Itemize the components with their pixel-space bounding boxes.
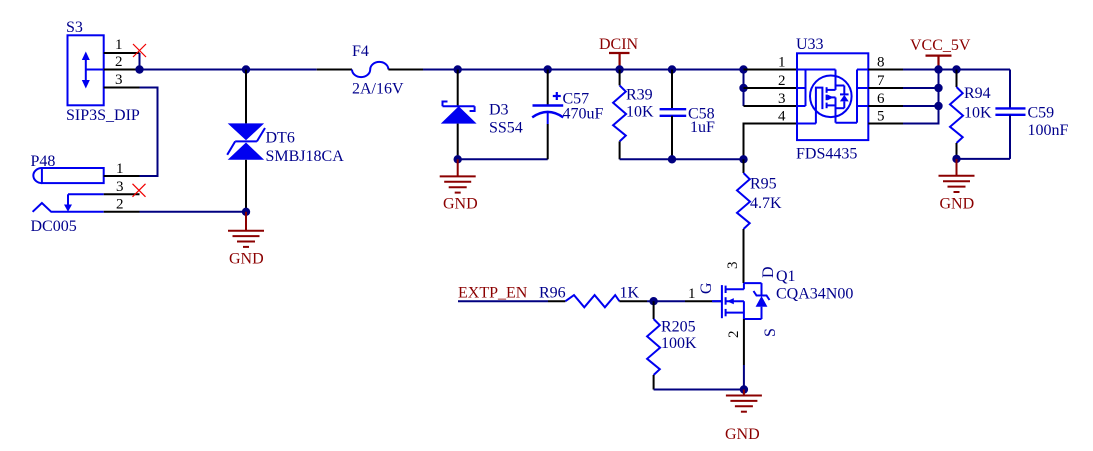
- wire fuse left lead: [317, 69, 352, 71]
- svg-text:FDS4435: FDS4435: [796, 146, 857, 163]
- wire R94 top lead: [956, 70, 958, 88]
- U33 pin 4: [744, 124, 798, 160]
- wire D3 bottom lead: [457, 124, 459, 160]
- svg-text:10K: 10K: [964, 105, 992, 122]
- wire C58 bottom lead: [671, 116, 673, 160]
- wire Q1 source to GND junction: [743, 365, 745, 390]
- svg-text:R205: R205: [661, 319, 696, 336]
- svg-text:GND: GND: [940, 196, 975, 213]
- wire main rail (S3 to fuse): [140, 69, 317, 71]
- wire S3 pin3 to P48 pin1: [140, 88, 158, 177]
- svg-text:1uF: 1uF: [690, 119, 715, 136]
- wire U33 left pin bus: [743, 70, 745, 107]
- wire DT6 top lead: [245, 70, 247, 124]
- svg-text:SIP3S_DIP: SIP3S_DIP: [66, 107, 140, 124]
- node junction R94 bottom: [952, 155, 960, 163]
- svg-text:3: 3: [115, 72, 123, 88]
- svg-text:1K: 1K: [620, 285, 640, 302]
- node junction C58 top: [668, 65, 676, 73]
- svg-text:2: 2: [115, 54, 123, 70]
- mosfet array U33: [797, 53, 868, 140]
- P48 pin 3: [104, 193, 140, 195]
- no-connect X on S3 pin 1: [133, 44, 146, 57]
- wire R39 bottom lead: [619, 141, 621, 159]
- svg-text:10K: 10K: [626, 104, 654, 121]
- wire D3 top lead: [457, 70, 459, 107]
- svg-text:R95: R95: [750, 176, 777, 193]
- node junction C57 top: [544, 65, 552, 73]
- svg-text:3: 3: [116, 179, 124, 195]
- Q1 gate pin: [685, 300, 721, 302]
- node junction S3 pin2: [135, 65, 143, 73]
- wire R96 right lead: [619, 300, 647, 302]
- svg-text:R94: R94: [964, 85, 991, 102]
- svg-text:1: 1: [116, 161, 124, 177]
- wire R205 top lead: [653, 301, 655, 319]
- wire C57 top lead: [547, 70, 549, 106]
- Q1 source pin: [743, 319, 745, 365]
- U33 pin 7: [868, 87, 903, 89]
- node junction gate / R205: [649, 297, 657, 305]
- U33 pin 1: [744, 69, 798, 71]
- svg-text:470uF: 470uF: [563, 106, 604, 123]
- svg-text:D3: D3: [489, 102, 509, 119]
- svg-text:6: 6: [877, 91, 885, 107]
- node junction pin7: [934, 84, 942, 92]
- svg-text:GND: GND: [229, 251, 264, 268]
- svg-text:DC005: DC005: [31, 218, 77, 235]
- svg-text:R96: R96: [539, 285, 566, 302]
- svg-text:GND: GND: [725, 426, 760, 443]
- wire R96 to gate junction: [647, 300, 685, 302]
- svg-text:2: 2: [726, 331, 742, 339]
- svg-text:P48: P48: [31, 153, 56, 170]
- wire fuse right lead: [388, 69, 423, 71]
- capacitor C57 polarized: [532, 91, 603, 125]
- TVS diode DT6: [227, 123, 344, 165]
- wire R205 bottom lead: [653, 375, 655, 390]
- fuse F4: [352, 43, 404, 98]
- svg-text:5: 5: [877, 109, 885, 125]
- wire VCC rail to C59: [939, 69, 1011, 71]
- resistor R95: [737, 173, 782, 229]
- svg-text:R39: R39: [626, 87, 653, 104]
- wire R39 top lead: [619, 70, 621, 86]
- node junction DT6 bottom: [242, 208, 250, 216]
- Q1 labels: [698, 262, 853, 339]
- ground below Q1: [725, 390, 762, 444]
- no-connect X on P48 pin 3: [133, 184, 146, 197]
- svg-text:DT6: DT6: [266, 130, 295, 147]
- svg-text:8: 8: [877, 55, 885, 71]
- svg-text:U33: U33: [796, 36, 824, 53]
- U33 pin 6: [868, 105, 903, 107]
- svg-text:F4: F4: [352, 43, 369, 60]
- svg-text:3: 3: [778, 91, 786, 107]
- svg-text:100K: 100K: [661, 335, 697, 352]
- U33 pin 5: [868, 123, 903, 125]
- connector P48: [31, 153, 104, 235]
- resistor R94: [950, 85, 992, 143]
- node junction R94 top: [952, 65, 960, 73]
- svg-text:4.7K: 4.7K: [750, 195, 782, 212]
- U33 pin 3: [744, 105, 798, 107]
- node junction VCC / pin8: [934, 65, 942, 73]
- node junction C58 bottom: [668, 155, 676, 163]
- svg-text:VCC_5V: VCC_5V: [910, 37, 971, 54]
- connector S3: [66, 19, 140, 124]
- wire pins 8-5 to VCC bus: [903, 69, 939, 71]
- wire D3 bottom to C57 bottom: [458, 158, 548, 160]
- diode D3 (schottky): [441, 102, 523, 137]
- ground below DT6: [228, 212, 264, 268]
- svg-text:2: 2: [778, 73, 786, 89]
- capacitor C59: [957, 70, 1069, 159]
- node junction D3 top: [454, 65, 462, 73]
- svg-text:S3: S3: [66, 19, 83, 36]
- svg-text:4: 4: [778, 109, 786, 125]
- node junction U33 pin1: [739, 65, 747, 73]
- svg-text:100nF: 100nF: [1028, 122, 1069, 139]
- power port VCC_5V: [910, 37, 971, 70]
- wire S3 pin1 to pin2 junction: [139, 53, 141, 70]
- S3 pin 2: [104, 69, 140, 71]
- svg-text:S: S: [762, 328, 779, 337]
- node junction DCIN / R39: [615, 65, 623, 73]
- S3 pin 3: [104, 87, 140, 89]
- svg-text:1: 1: [115, 37, 123, 53]
- wire C57 bottom lead: [547, 124, 549, 159]
- wire R205 to Q1 source junction: [654, 389, 744, 391]
- node junction D3 bottom: [454, 155, 462, 163]
- svg-text:3: 3: [725, 262, 741, 270]
- wire R95 bottom lead (to Q1 drain): [743, 229, 745, 283]
- svg-text:1: 1: [688, 286, 696, 302]
- svg-text:SMBJ18CA: SMBJ18CA: [266, 148, 345, 165]
- capacitor C58: [660, 106, 715, 137]
- node junction U33 pin2: [739, 84, 747, 92]
- svg-text:2A/16V: 2A/16V: [352, 81, 404, 98]
- svg-text:7: 7: [877, 73, 885, 89]
- wire P48 pin2 to DT6 bottom: [140, 211, 247, 213]
- wire R96 left lead: [548, 300, 565, 302]
- svg-text:Q1: Q1: [776, 268, 796, 285]
- svg-text:G: G: [698, 282, 715, 294]
- wire C58 top lead: [671, 70, 673, 110]
- S3 pin 1: [104, 52, 140, 54]
- ground below R94: [939, 159, 975, 213]
- U33 pin 2: [744, 87, 798, 89]
- wire R95 top lead: [743, 159, 745, 173]
- wire main rail (fuse to U33): [423, 69, 762, 71]
- svg-text:2: 2: [116, 197, 124, 213]
- node junction Q1 source / GND: [740, 385, 748, 393]
- svg-text:SS54: SS54: [489, 120, 523, 137]
- P48 pin 2: [104, 211, 140, 213]
- svg-text:C59: C59: [1028, 105, 1055, 122]
- P48 pin 1: [104, 175, 140, 177]
- svg-text:D: D: [760, 266, 777, 278]
- wire bottom net rail (R39 to U33 pin4): [620, 158, 744, 160]
- node junction U33 pin4 / R95: [739, 155, 747, 163]
- wire EXTP_EN to R96: [458, 300, 548, 302]
- node junction DT6 top: [242, 65, 250, 73]
- resistor R39: [613, 85, 654, 141]
- wire DT6 bottom lead: [245, 160, 247, 212]
- svg-text:CQA34N00: CQA34N00: [776, 286, 853, 303]
- U33 pin 8: [868, 69, 903, 71]
- svg-text:1: 1: [778, 55, 786, 71]
- svg-text:DCIN: DCIN: [599, 36, 639, 53]
- ground below D3: [440, 159, 478, 212]
- resistor R96: [539, 285, 640, 308]
- node junction pin6: [934, 102, 942, 110]
- resistor R205: [647, 319, 697, 376]
- power port DCIN: [599, 36, 639, 70]
- svg-text:GND: GND: [443, 196, 478, 213]
- wire R94 bottom lead: [956, 143, 958, 159]
- transistor Q1: [712, 283, 770, 319]
- svg-text:EXTP_EN: EXTP_EN: [458, 285, 528, 302]
